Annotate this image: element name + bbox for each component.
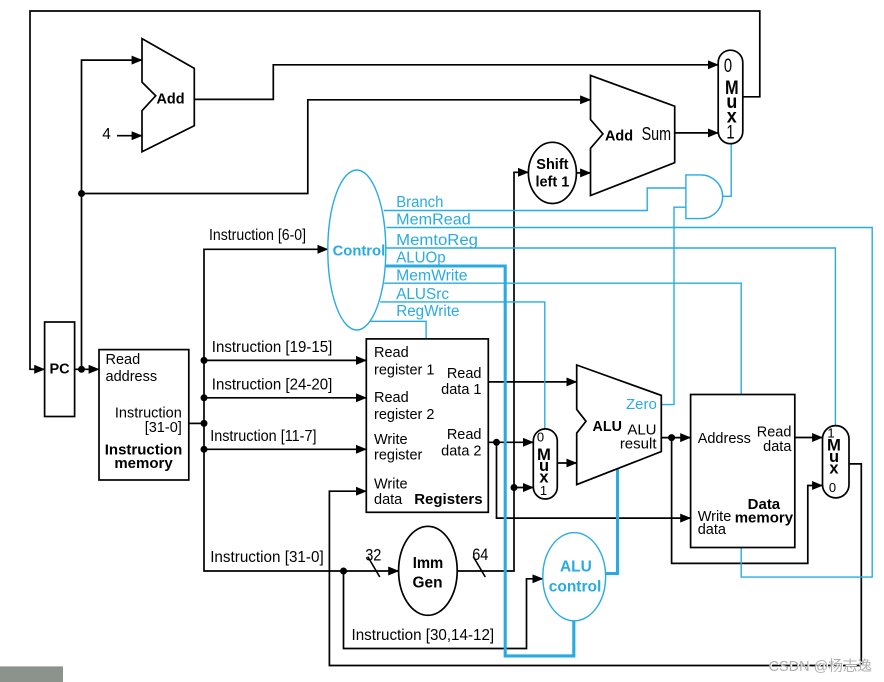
- wire: instruction bus vertical and Instruction [6-0] into Control: [204, 249, 327, 423]
- svg-text:Write: Write: [374, 477, 408, 493]
- svg-text:memory: memory: [114, 455, 173, 472]
- gray block bottom left: [0, 666, 63, 682]
- label ALU control: [549, 558, 602, 595]
- ellipse Imm Gen: [399, 526, 458, 615]
- wire: Read data 2 to ALU mux input 0: [488, 441, 533, 443]
- wire: immediate into ALU mux input 1: [514, 487, 533, 489]
- wire: ALUOp signal (thick) down to ALU control: [385, 266, 574, 656]
- wire: data memory Read data to write-back mux input 1: [795, 437, 822, 439]
- wire: PC bus up to Add 1 top input: [82, 60, 142, 369]
- svg-text:Add: Add: [157, 91, 185, 108]
- svg-text:Control: Control: [333, 243, 386, 260]
- svg-text:Branch: Branch: [396, 194, 443, 211]
- svg-text:Zero: Zero: [626, 396, 657, 413]
- ellipse ALU control: [543, 533, 606, 621]
- svg-text:Imm: Imm: [413, 555, 444, 572]
- mux write-back: [823, 426, 850, 498]
- svg-text:register 2: register 2: [374, 407, 434, 423]
- svg-text:Read: Read: [106, 352, 141, 368]
- ALU: [577, 365, 662, 485]
- label Imm Gen: [413, 555, 444, 591]
- box Instruction memory: [99, 350, 189, 480]
- svg-text:address: address: [106, 369, 158, 385]
- svg-text:0: 0: [829, 480, 836, 495]
- node: Instruction [31-0] junction to ALU control: [340, 568, 347, 575]
- svg-text:data: data: [698, 522, 727, 538]
- svg-text:Write: Write: [374, 432, 408, 448]
- svg-text:data: data: [374, 492, 403, 508]
- svg-text:Add: Add: [605, 127, 633, 144]
- label Shift left 1: [535, 157, 569, 190]
- label ALU result: [620, 421, 658, 452]
- wire: ALU control output (thick) up into ALU: [605, 469, 617, 574]
- node: PC output junction: [78, 366, 85, 373]
- wire: constant 4 into Add 1: [117, 135, 142, 137]
- svg-text:MemWrite: MemWrite: [396, 267, 467, 284]
- node: read data 2 junction: [493, 439, 500, 446]
- svg-text:Read: Read: [374, 345, 409, 361]
- svg-text:RegWrite: RegWrite: [396, 303, 459, 320]
- wire: Add 1 output PC+4 to PC mux input 0: [194, 65, 718, 100]
- mux PC source (top right): [718, 50, 743, 144]
- wire: MemtoReg signal to write-back mux select: [386, 248, 836, 426]
- register PC: [45, 322, 75, 417]
- svg-text:result: result: [620, 436, 658, 453]
- node: bus junction Instruction [24-20]: [201, 394, 208, 401]
- svg-text:0: 0: [724, 56, 732, 77]
- svg-text:x: x: [829, 460, 839, 478]
- svg-text:data: data: [763, 439, 792, 455]
- wire: Instruction [24-20] to Read register 2: [204, 397, 366, 399]
- svg-text:Registers: Registers: [414, 491, 482, 508]
- control signal labels: [396, 194, 478, 320]
- ellipse Control: [328, 170, 386, 330]
- svg-text:PC: PC: [50, 361, 71, 377]
- mux PC source labels: [724, 56, 739, 144]
- svg-text:Read: Read: [447, 366, 482, 382]
- svg-text:MemRead: MemRead: [396, 212, 471, 229]
- svg-text:register 1: register 1: [374, 362, 434, 378]
- bus width slash 64: [473, 557, 485, 578]
- svg-text:[31-0]: [31-0]: [145, 420, 182, 436]
- svg-text:Instruction [6-0]: Instruction [6-0]: [209, 227, 306, 244]
- wire: read data 2 down to data memory Write data: [497, 442, 691, 518]
- wire: Imm Gen 64-bit output riser to Shift left 1: [457, 172, 528, 571]
- node: immediate junction at ALU mux input 1: [511, 484, 518, 491]
- node: bus junction Instruction [19-15]: [201, 357, 208, 364]
- svg-text:1: 1: [540, 483, 547, 498]
- mux write-back labels: [827, 426, 841, 496]
- svg-text:Read: Read: [757, 424, 792, 440]
- wire: ALU mux output to ALU bottom input: [557, 462, 576, 464]
- svg-text:ALU: ALU: [593, 418, 622, 435]
- wire: MemRead signal down right side to data memory bottom: [386, 228, 872, 578]
- svg-text:Shift: Shift: [536, 157, 568, 173]
- svg-text:Address: Address: [698, 431, 751, 447]
- svg-text:Instruction [31-0]: Instruction [31-0]: [210, 549, 324, 566]
- svg-text:left 1: left 1: [535, 174, 569, 190]
- wire: instruction bus down and Instruction [31-0] into Imm Gen: [204, 423, 398, 571]
- node: bus junction Instruction [11-7]: [201, 446, 208, 453]
- svg-text:Read: Read: [374, 390, 409, 406]
- svg-text:64: 64: [472, 545, 488, 564]
- node: ALU result junction: [668, 434, 675, 441]
- svg-text:control: control: [549, 579, 602, 596]
- svg-text:ALUOp: ALUOp: [396, 250, 446, 267]
- svg-text:memory: memory: [735, 510, 794, 527]
- wire: PC out to instruction memory read address: [75, 368, 99, 370]
- svg-text:Instruction [24-20]: Instruction [24-20]: [212, 377, 332, 394]
- node: bus junction memory output: [201, 420, 208, 427]
- mux ALU source labels: [537, 430, 551, 499]
- svg-text:0: 0: [537, 430, 544, 445]
- wire: Shift left 1 output to branch Add bottom input: [576, 172, 590, 174]
- svg-text:1: 1: [726, 123, 734, 144]
- wire: Instruction [30,14-12] to ALU control: [344, 571, 543, 649]
- svg-text:register: register: [374, 448, 423, 464]
- svg-text:Instruction [30,14-12]: Instruction [30,14-12]: [352, 627, 495, 644]
- svg-text:Instruction [11-7]: Instruction [11-7]: [210, 428, 316, 445]
- ellipse Shift left 1: [528, 142, 576, 203]
- mux ALU source: [533, 429, 557, 499]
- svg-text:MemtoReg: MemtoReg: [396, 232, 478, 249]
- svg-text:Read: Read: [447, 427, 482, 443]
- svg-text:ALU: ALU: [560, 558, 592, 575]
- svg-text:data 1: data 1: [441, 382, 481, 398]
- wire: RegWrite signal down into Registers: [370, 321, 426, 339]
- wire: write-back mux output around to Registers Write data: [329, 464, 861, 666]
- box Registers: [366, 339, 488, 512]
- svg-text:Instruction [19-15]: Instruction [19-15]: [212, 339, 332, 356]
- wire: Read data 1 to ALU top input: [488, 381, 576, 383]
- svg-text:ALUSrc: ALUSrc: [396, 286, 449, 303]
- wire: Instruction [11-7] to Write register: [204, 448, 366, 450]
- svg-text:4: 4: [102, 126, 111, 143]
- wire: PC mux output feedback loop to PC input: [30, 11, 760, 369]
- wire: ALU result down around to write-back mux input 0: [672, 438, 823, 564]
- wire: Branch signal to AND gate input 1: [384, 188, 686, 211]
- wire: ALU result to data memory Address: [661, 437, 690, 439]
- wire: AND gate output to PC mux select: [723, 144, 731, 197]
- wire: PC value right to branch Add top input: [82, 100, 591, 194]
- wire: branch Add Sum output to PC mux input 1: [675, 132, 718, 134]
- adder Add (branch target): [591, 75, 675, 195]
- wire: MemWrite signal to data memory top: [384, 283, 741, 394]
- box Data memory: [691, 395, 795, 548]
- svg-text:Gen: Gen: [413, 574, 443, 591]
- adder Add (PC+4): [142, 39, 194, 152]
- wire: instruction memory output to bus: [189, 422, 204, 424]
- svg-text:32: 32: [365, 546, 381, 565]
- svg-text:Sum: Sum: [642, 124, 672, 144]
- svg-text:CSDN @杨志逸: CSDN @杨志逸: [769, 658, 872, 675]
- svg-text:data 2: data 2: [441, 443, 481, 459]
- wire: Instruction [19-15] to Read register 1: [204, 359, 366, 361]
- gate AND: [686, 175, 723, 219]
- bus width slash 32: [368, 557, 380, 578]
- wire: ALUSrc signal to ALU mux select: [380, 302, 545, 430]
- wire: Zero flag from ALU up to AND gate input 2: [661, 207, 686, 404]
- node: PC branch junction: [78, 190, 85, 197]
